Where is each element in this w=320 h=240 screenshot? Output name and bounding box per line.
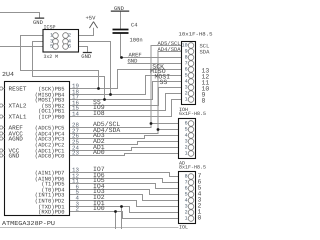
svg-text:GND: GND <box>33 19 44 26</box>
svg-text:GND: GND <box>128 58 139 65</box>
svg-text:AD0: AD0 <box>93 149 105 156</box>
svg-text:SDA: SDA <box>200 48 211 55</box>
svg-text:100n: 100n <box>130 36 143 43</box>
svg-text:SS: SS <box>160 79 168 86</box>
svg-text:XTAL1: XTAL1 <box>9 114 27 121</box>
svg-text:10x1F-H8.5: 10x1F-H8.5 <box>179 32 213 38</box>
svg-text:ICSP: ICSP <box>44 25 56 31</box>
svg-text:XTAL2: XTAL2 <box>9 103 27 110</box>
svg-text:+5V: +5V <box>86 15 97 22</box>
svg-text:1: 1 <box>185 97 188 103</box>
svg-text:23: 23 <box>72 150 79 157</box>
svg-text:2U4: 2U4 <box>2 71 14 78</box>
svg-text:(ICP)PB0: (ICP)PB0 <box>38 114 64 121</box>
svg-text:1: 1 <box>185 216 188 222</box>
svg-text:GND: GND <box>81 53 92 60</box>
svg-text:6: 6 <box>68 44 71 50</box>
svg-text:1: 1 <box>185 151 188 157</box>
svg-text:IO8: IO8 <box>93 110 105 117</box>
svg-text:14: 14 <box>72 111 79 118</box>
svg-text:GND: GND <box>9 153 20 160</box>
svg-text:AGND: AGND <box>9 136 24 143</box>
svg-text:8: 8 <box>202 98 206 105</box>
svg-text:(ADC0)PC0: (ADC0)PC0 <box>35 153 65 160</box>
svg-text:GND: GND <box>114 5 125 12</box>
svg-text:3x2 M: 3x2 M <box>44 54 59 60</box>
svg-text:C4: C4 <box>131 21 138 28</box>
svg-text:AD4/SDA: AD4/SDA <box>158 46 182 53</box>
svg-text:2: 2 <box>76 206 80 213</box>
svg-text:RESET: RESET <box>9 86 27 93</box>
svg-text:5: 5 <box>50 44 53 50</box>
svg-text:(RXD)PD0: (RXD)PD0 <box>38 209 64 216</box>
svg-text:ATMEGA328P-PU: ATMEGA328P-PU <box>2 220 55 227</box>
svg-text:8x1F-H8.5: 8x1F-H8.5 <box>179 165 206 171</box>
svg-text:IOL: IOL <box>179 225 188 229</box>
svg-text:6x1F-H8.5: 6x1F-H8.5 <box>179 111 206 117</box>
svg-text:IO0: IO0 <box>93 205 105 212</box>
svg-text:0: 0 <box>198 215 202 222</box>
